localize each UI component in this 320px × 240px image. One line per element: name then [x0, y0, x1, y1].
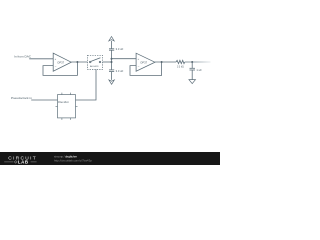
svg-text:1 uF: 1 uF — [196, 68, 202, 72]
svg-text:−: − — [55, 64, 57, 68]
wire R1 to output edge fading — [185, 61, 211, 63]
svg-text:−: − — [138, 64, 140, 68]
svg-text:http://circuitlab.com/c/7ba43p: http://circuitlab.com/c/7ba43p — [54, 159, 92, 163]
ground — [189, 80, 196, 84]
svg-text:OP37: OP37 — [57, 60, 64, 64]
svg-text:+: + — [138, 58, 140, 61]
svg-text:OP37: OP37 — [140, 60, 147, 64]
op-amp U1 OP37 — [53, 53, 71, 71]
svg-text:One shot: One shot — [58, 100, 69, 104]
power +V arrow up — [109, 37, 114, 41]
switch SW1 dashed box — [88, 55, 103, 69]
svg-text:In from DAC: In from DAC — [14, 55, 32, 59]
wire hold node to U2 + input — [112, 58, 137, 60]
svg-text:Pseudoclock in: Pseudoclock in — [11, 96, 32, 100]
node Pseudoclock in label — [11, 96, 32, 100]
capacitor C1 3.3uF top — [109, 41, 124, 52]
wire one-shot output to switch control — [76, 70, 97, 101]
footer bar — [0, 152, 220, 165]
op-amp U2 OP37 — [136, 53, 155, 71]
capacitor C2 3.3uF bottom — [109, 69, 124, 80]
capacitor C3 1uF — [190, 62, 203, 80]
svg-text:LAB: LAB — [18, 159, 29, 164]
wire SW1 out to hold node — [103, 61, 112, 63]
svg-text:3.3 uF: 3.3 uF — [116, 69, 124, 73]
wire Pseudoclock to one-shot — [31, 99, 57, 101]
wire U1 output — [71, 61, 87, 63]
svg-text:ADG419: ADG419 — [90, 65, 99, 68]
node junction hold mid — [111, 61, 113, 63]
wire hold node vertical — [111, 50, 113, 70]
svg-text:+: + — [55, 58, 57, 61]
wire U1 - input feedback loop — [43, 62, 77, 75]
wire U2 - input feedback loop — [130, 62, 162, 75]
resistor R1 3.3k — [176, 60, 185, 68]
node In from DAC label — [14, 55, 32, 59]
one-shot U3 box — [56, 93, 78, 120]
node junction RC — [191, 61, 193, 63]
svg-text:3.3 kΩ: 3.3 kΩ — [177, 66, 184, 68]
wire from DAC flag to U1 + input — [29, 58, 53, 60]
svg-text:3.3 uF: 3.3 uF — [116, 47, 124, 51]
power -V arrow down — [109, 80, 114, 84]
wire U2 output — [155, 61, 176, 63]
node junction U1 out — [76, 61, 78, 63]
node junction U2 out — [161, 61, 163, 63]
node junction hold top — [111, 58, 113, 60]
